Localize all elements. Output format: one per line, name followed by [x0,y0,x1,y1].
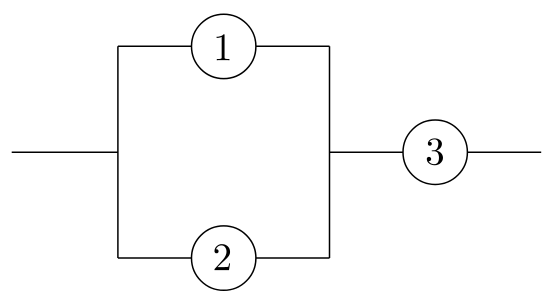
wire: right lead [467,151,541,153]
element 2: circle node [192,226,256,290]
element 2: label "2" [215,244,231,270]
element 1: circle node [192,14,256,78]
wire: left vertical branch [117,46,119,258]
wire: top branch [118,45,330,47]
wire: middle lead to element 3 [330,151,404,153]
wire: left lead [12,151,118,153]
element 1: label "1" [217,34,230,60]
wire: bottom branch [118,257,330,259]
wire: right vertical branch [329,46,331,258]
element 3: label "3" [427,138,443,165]
element 3: circle node [403,120,467,184]
